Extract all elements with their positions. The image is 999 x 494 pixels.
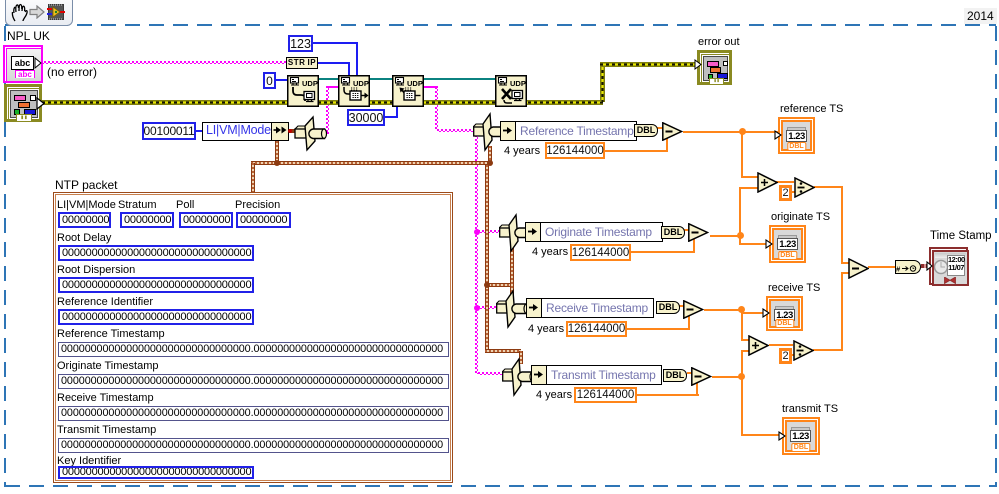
svg-text:UDP: UDP	[353, 79, 369, 88]
svg-text:UDP: UDP	[407, 79, 423, 88]
svg-text:UDP: UDP	[302, 79, 318, 88]
svg-text:#: #	[896, 265, 901, 274]
svg-text:UDP: UDP	[510, 79, 526, 88]
